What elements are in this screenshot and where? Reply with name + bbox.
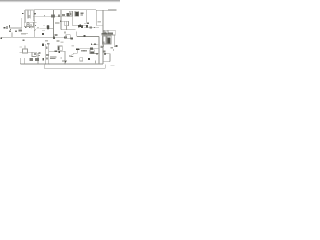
vertical x110	[109, 54, 111, 62]
wire y56.9	[69, 56, 73, 58]
faint text x31.6 y27	[32, 27, 34, 28]
label 7 below	[23, 40, 25, 42]
vertical wire x12	[11, 33, 13, 38]
wire C5 lead down	[66, 26, 68, 30]
blob near x87 y23	[87, 23, 89, 25]
label 10k mid	[55, 34, 58, 36]
wire y52.7 left	[20, 52, 23, 54]
vertical wire x48.8	[48, 45, 50, 65]
stub x103.8 below boxes	[103, 44, 105, 47]
U2 left dark marks	[58, 46, 60, 50]
mark under box x29	[29, 27, 30, 28]
label left of C	[58, 15, 60, 17]
wire y29.7	[61, 29, 76, 31]
C7 inner dark	[90, 52, 94, 54]
wire y35 right	[102, 34, 116, 36]
tick x60 y21	[60, 21, 61, 22]
label 1a right of R7	[71, 38, 73, 40]
label 4u7 top	[51, 14, 55, 17]
dot left end mid wire	[0, 38, 2, 40]
resistor box R6 top	[75, 11, 79, 16]
vertical wire x65	[64, 51, 66, 64]
resistor blob y27.6	[90, 27, 93, 29]
vertical wire x96.6	[96, 10, 98, 26]
box R12 bottom	[80, 58, 83, 61]
vertical x44.3	[43, 64, 45, 69]
wire y53.5	[93, 53, 99, 55]
emitter marks	[71, 55, 74, 57]
component blob top	[66, 13, 69, 16]
wire y44 under boxes	[102, 43, 111, 45]
blob on wire y25.4	[79, 25, 81, 27]
blob x86	[86, 25, 88, 27]
wire y27.6	[84, 27, 99, 29]
blob x83.8 y50.5	[84, 50, 85, 52]
wire y14 from diode	[34, 15, 67, 17]
label right of x38	[39, 52, 41, 54]
bottom long wire y68.7	[44, 68, 105, 70]
capacitor C5 inner plate	[66, 21, 68, 25]
vertical wire x20.3	[19, 58, 21, 64]
emitter squiggle	[69, 53, 74, 55]
vertical wire x114.3	[113, 35, 115, 47]
right elbow x115.4	[114, 30, 116, 35]
R6 dark fill	[75, 12, 78, 16]
bus junction dots	[45, 63, 46, 64]
R10 inner mark	[104, 32, 106, 34]
CB inner dark	[107, 38, 110, 44]
wire elbow x76.8	[76, 32, 78, 37]
faint text x37 y27	[37, 27, 39, 28]
blob B2	[81, 26, 83, 28]
electrolytic box CA right	[102, 36, 106, 44]
wire y30.3 right	[108, 29, 115, 31]
tick at x114 bottom	[114, 46, 116, 48]
label under y29.7	[64, 32, 66, 34]
diode D1 arrow	[34, 13, 36, 15]
R7 inner tick	[66, 37, 67, 39]
label right of R6	[80, 13, 83, 14]
wire y53.7 right	[105, 53, 111, 55]
label 4u right bottom	[102, 50, 105, 52]
label above mid wire	[21, 33, 26, 34]
transistor Q1 outer box	[24, 22, 33, 26]
label under mid	[57, 40, 60, 42]
vertical wire x77.7	[77, 50, 79, 53]
vertical x105.2	[104, 64, 106, 68]
wire y25.8 right	[97, 25, 103, 27]
rail ticks right	[108, 10, 116, 11]
light marks x101 y46	[101, 46, 102, 49]
label k right	[115, 45, 117, 47]
faint marks x71 y45	[72, 45, 75, 47]
label row under input	[9, 31, 11, 33]
blob join	[78, 25, 79, 27]
ticks y27.6	[94, 27, 95, 28]
blob y53.5	[96, 53, 98, 54]
two dots right	[113, 49, 114, 50]
box bottom left C2	[32, 52, 36, 56]
faint wire y28.2	[40, 27, 47, 29]
junction dot x91.3 y44	[91, 44, 92, 45]
junction blob x53.5 y37.4	[53, 37, 55, 39]
label x42 blob	[42, 33, 44, 35]
Q2 stub wire	[49, 27, 53, 30]
wire x31.9 stub	[31, 25, 33, 29]
box U2 left	[58, 46, 62, 50]
label right x100.5	[101, 46, 104, 48]
triangle mark	[94, 43, 97, 45]
wire y23.2	[84, 22, 89, 24]
lead above R2 box	[24, 46, 26, 50]
vertical wire x34.2	[33, 10, 35, 37]
wire right elbow y61.7	[103, 61, 110, 63]
vertical wire x99	[98, 37, 100, 65]
equals blob x88	[88, 58, 90, 60]
wire y51.2	[49, 50, 65, 52]
wire top rail right part	[96, 9, 116, 11]
faint x mark x44 y24	[43, 25, 44, 26]
vertical wire x24.7	[24, 58, 26, 64]
vertical wire x45.3	[44, 44, 46, 64]
Q1 inner marks	[27, 24, 29, 26]
component bar x76-79.5 y49	[76, 48, 80, 50]
transistor Q1 body	[26, 23, 30, 27]
vertical x95.5 faint	[95, 61, 97, 65]
input wire y28	[10, 27, 22, 29]
wire y52.7 mid	[28, 52, 33, 54]
faint text x34.6 y22	[35, 22, 37, 23]
label row right y33.5	[101, 33, 107, 35]
wire top supply rail	[33, 9, 96, 11]
transformer T1	[24, 10, 26, 22]
cross mark x44 y15.5	[44, 15, 45, 17]
vertical wire x53.5	[53, 10, 55, 38]
faint label P1	[55, 22, 59, 24]
mark below label x38	[39, 55, 41, 56]
transistor Q2 blob	[47, 26, 49, 29]
dark seg y48.7	[90, 48, 93, 50]
bottom text left row	[30, 58, 33, 61]
capacitor C5 box	[65, 21, 69, 26]
emitter junction blob	[25, 27, 27, 28]
resistor R7 box	[66, 35, 70, 39]
vertical wire x103	[102, 10, 104, 64]
faint text x26 y33	[26, 33, 28, 34]
wire y25.4	[72, 24, 86, 26]
junction dot top left	[22, 13, 23, 14]
right box R10	[104, 30, 108, 34]
box bottom left R2	[23, 49, 28, 53]
faint dash right bottom	[111, 64, 115, 66]
faint text x60 y42	[61, 42, 64, 44]
label 220k row	[81, 50, 84, 52]
R5 inner mark	[70, 13, 72, 16]
page top edge shading	[0, 0, 120, 3]
wire y37.7 mid	[54, 37, 66, 39]
stub x62.2	[61, 50, 63, 51]
label right top faint	[98, 21, 101, 23]
vertical wire x72.4	[71, 16, 73, 25]
bottom text 10k 1m row	[50, 56, 57, 57]
electrolytic box CB right	[107, 36, 111, 44]
transformer inner marks	[28, 15, 30, 18]
C2 inner mark	[34, 53, 36, 55]
blob on y51.2 x55.5	[55, 50, 57, 52]
wire y53.2	[74, 52, 78, 54]
wire y48.7	[80, 48, 99, 50]
transistor Q2 outline	[46, 25, 50, 29]
wire y36.5	[77, 36, 99, 38]
wire y21.3	[61, 20, 65, 22]
dot above label	[10, 29, 11, 30]
diode blob y36.5	[84, 35, 86, 37]
tiny mark x60 y57	[60, 57, 62, 58]
wire y44.7	[91, 44, 99, 46]
tick right of vertical x34	[35, 25, 36, 26]
label under y37 left	[45, 40, 48, 42]
tick left end y53.7	[104, 53, 106, 54]
bottom bus wire y64	[20, 63, 103, 65]
vertical x69.3	[68, 55, 70, 57]
CA inner mark	[103, 41, 105, 43]
vertical wire x38	[37, 53, 39, 64]
blob under U2	[58, 51, 60, 53]
faint text above R2	[20, 46, 22, 47]
faint dots x42 y30	[42, 30, 45, 31]
Rk text right	[111, 47, 113, 49]
junction blob x42.5 y44.5	[42, 43, 44, 45]
resistor box R5 top	[69, 11, 72, 16]
wire mid long y37.4	[2, 36, 54, 38]
Q1 emitter diagonal	[35, 29, 37, 31]
label mid top	[62, 14, 65, 16]
wire Q1 collector stub	[30, 24, 32, 26]
box C7 bottom mid	[90, 50, 94, 54]
vertical wire x61	[60, 10, 62, 30]
vertical wire x86	[85, 10, 87, 23]
marks between tall verticals	[46, 47, 48, 49]
input coupling vertical x21.8	[21, 18, 23, 28]
junction blob x64.5	[64, 37, 65, 39]
input symbol marks	[4, 27, 6, 29]
